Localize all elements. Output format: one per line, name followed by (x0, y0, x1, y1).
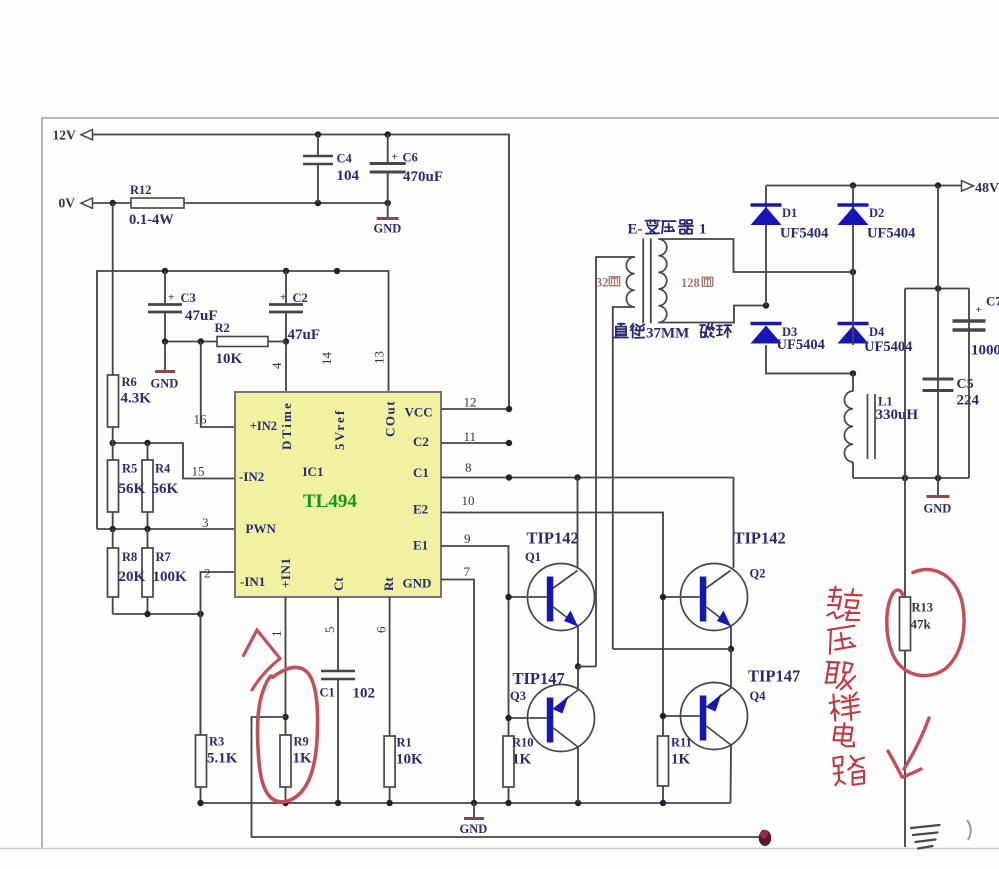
resistor R1 (384, 736, 395, 787)
wire end blob (759, 830, 772, 846)
label core note (直径37MM磁环) (614, 324, 628, 338)
junction R1 bottom (386, 800, 392, 806)
svg-text:-IN1: -IN1 (240, 574, 265, 589)
ground below C6 (387, 203, 389, 217)
diode D2 (838, 203, 869, 207)
junction C4/12V (315, 131, 321, 137)
svg-text:GND: GND (924, 502, 952, 516)
junction D2 anode (850, 269, 856, 275)
svg-text:11: 11 (464, 429, 477, 444)
svg-text:Q3: Q3 (510, 689, 526, 703)
red arrow up near R9 (244, 630, 281, 690)
svg-text:C1: C1 (320, 686, 335, 700)
wire secondary top lead (658, 239, 853, 272)
junction pin14 top (334, 268, 340, 274)
svg-text:2: 2 (204, 566, 211, 581)
wire C3 to R2 node (165, 341, 217, 343)
svg-text:7: 7 (464, 564, 471, 579)
diode D3 (751, 322, 782, 326)
transformer T1 core (642, 239, 644, 324)
junction C3 bottom (162, 338, 168, 344)
junction C4/0V (315, 200, 321, 206)
svg-text:4.3K: 4.3K (121, 391, 152, 407)
svg-text:330uH: 330uH (876, 407, 919, 423)
resistor R2 (268, 341, 286, 343)
svg-text:TIP142: TIP142 (527, 529, 579, 548)
junction Q3 base (505, 715, 511, 721)
wire R8/R7 bottoms (113, 613, 201, 615)
transformer T1 secondary winding (658, 239, 666, 323)
svg-text:56K: 56K (119, 481, 146, 497)
inductor L1 (852, 373, 854, 391)
svg-text:COut: COut (383, 400, 398, 437)
svg-text:32: 32 (596, 276, 609, 290)
svg-text:C5: C5 (957, 377, 974, 392)
ground symbol right (937, 478, 939, 495)
wire Q4 collector down (730, 745, 733, 803)
svg-text:6: 6 (374, 626, 389, 633)
wire Q2 collector (733, 478, 735, 569)
svg-text:104: 104 (337, 168, 360, 184)
resistor R5 (112, 443, 114, 460)
junction D2 cathode rail (850, 182, 856, 188)
resistor R8 (112, 529, 114, 548)
svg-text:1: 1 (699, 222, 707, 238)
svg-text:C4: C4 (337, 152, 353, 166)
svg-text:C7: C7 (986, 294, 999, 309)
wire pin7 GND (441, 580, 474, 804)
junction C3 top (162, 268, 168, 274)
svg-text:56K: 56K (152, 481, 179, 497)
red note char 3 (取) (824, 660, 857, 691)
svg-text:9: 9 (464, 531, 471, 546)
resistor R4 (147, 443, 149, 460)
svg-text:13: 13 (372, 351, 387, 364)
wire C2 node to pin4 (285, 342, 287, 393)
svg-text:C3: C3 (181, 291, 196, 305)
svg-text:16: 16 (194, 412, 208, 427)
resistor R12 (131, 198, 184, 208)
wire pin12 VCC (441, 408, 509, 410)
red note char 2 (压) (827, 626, 857, 654)
red note char 1 (稳) (826, 586, 863, 622)
red arrow down near R13 (888, 718, 929, 777)
svg-text:+IN2: +IN2 (250, 419, 277, 433)
svg-text:UF5404: UF5404 (867, 226, 915, 242)
junction R4 top (144, 440, 150, 446)
capacitor C6 (387, 135, 389, 163)
wire pin16 +IN2 (201, 342, 235, 428)
svg-text:15: 15 (192, 464, 205, 479)
junction pin16 tap (198, 338, 204, 344)
junction C6/12V (385, 131, 391, 137)
svg-text:D2: D2 (869, 206, 884, 220)
svg-text:+: + (976, 304, 982, 316)
svg-text:12: 12 (464, 395, 477, 410)
transformer T1 primary winding (626, 257, 634, 307)
junction R9 top (282, 714, 288, 720)
wire output bottom line (853, 477, 969, 479)
svg-text:Ct: Ct (331, 577, 346, 591)
red circle around R13 (887, 570, 964, 676)
svg-text:14: 14 (319, 352, 334, 366)
wire Q3 base (509, 717, 529, 719)
junction output cap rail (935, 182, 941, 188)
wire pin5 Ct down (337, 597, 339, 670)
wire R6 bottom node (113, 443, 235, 479)
op-amp U1 TL494 body (235, 392, 441, 597)
svg-text:1K: 1K (671, 752, 691, 768)
capacitor C1 (321, 670, 355, 673)
wire Q3 emitter up (577, 667, 579, 691)
junction pin12/12V (506, 406, 512, 412)
svg-text:E2: E2 (413, 502, 428, 517)
svg-text:0.1-4W: 0.1-4W (129, 212, 174, 228)
junction pin11/12V (506, 440, 512, 446)
svg-text:+IN1: +IN1 (278, 558, 293, 588)
resistor R7 (147, 529, 149, 548)
wire output top line (905, 288, 969, 290)
junction R3 bottom (197, 800, 203, 806)
capacitor C5 (937, 289, 939, 479)
svg-text:C6: C6 (403, 151, 418, 165)
junction Q1 collector tap (574, 474, 580, 480)
svg-text:R4: R4 (155, 462, 171, 476)
wire 48V rail (766, 185, 961, 187)
svg-text:UF5404: UF5404 (777, 337, 825, 353)
svg-text:R7: R7 (156, 550, 171, 564)
hand-drawn ground scribble (911, 825, 940, 849)
junction C5 bottom (935, 475, 941, 481)
svg-text:1K: 1K (512, 752, 532, 768)
inductor L1 core (867, 394, 869, 459)
wire R13 down (904, 651, 906, 848)
junction Q4 base (660, 713, 666, 719)
wire pin10 E2 (441, 513, 663, 804)
wire primary top to emitters (578, 666, 596, 668)
resistor R6 (108, 375, 119, 427)
svg-text:R5: R5 (122, 462, 137, 476)
capacitor C3 (164, 271, 166, 303)
svg-text:R11: R11 (671, 736, 692, 750)
svg-text:1000uF: 1000uF (971, 343, 999, 359)
svg-text:4: 4 (269, 362, 284, 369)
svg-text:GND: GND (460, 822, 488, 836)
svg-text:47uF: 47uF (185, 308, 218, 324)
wire D2 branch (852, 186, 854, 273)
svg-text:224: 224 (957, 393, 980, 409)
photo mark parenthesis (967, 820, 971, 840)
svg-text:5: 5 (322, 627, 337, 634)
svg-text:48V: 48V (975, 181, 999, 196)
resistor R9 (280, 735, 291, 787)
svg-text:+: + (168, 292, 174, 304)
wire pin11 (441, 442, 509, 444)
svg-text:VCC: VCC (405, 405, 433, 420)
svg-text:PWN: PWN (246, 521, 277, 536)
svg-text:470uF: 470uF (403, 169, 443, 185)
wire primary bottom lead (613, 307, 635, 649)
junction C5 top (935, 285, 941, 291)
wire R13 branch (904, 478, 906, 597)
junction C2 top (283, 268, 289, 274)
resistor R13 (900, 597, 911, 651)
svg-text:D4: D4 (869, 325, 885, 339)
wire D3 anode (766, 345, 853, 373)
junction R4 bottom (144, 526, 150, 532)
svg-text:R1: R1 (397, 736, 412, 750)
wire pin2 -IN1 (201, 572, 236, 735)
wire R9 top to feedback line (252, 717, 766, 837)
junction Q2 base (660, 594, 666, 600)
svg-text:R10: R10 (512, 736, 534, 750)
svg-text:C2: C2 (413, 434, 429, 449)
wire 0V line (93, 202, 388, 204)
capacitor C7 (968, 289, 970, 479)
12V input arrow (81, 130, 93, 140)
svg-text:E-: E- (628, 222, 643, 238)
svg-text:47k: 47k (911, 617, 932, 632)
svg-text:GND: GND (151, 377, 179, 391)
diode D1 (751, 203, 782, 207)
svg-text:R13: R13 (912, 601, 934, 615)
svg-text:10: 10 (462, 493, 475, 508)
wire Q2 emitter down (730, 626, 732, 649)
red note char 6 (路) (833, 755, 866, 786)
wire D4 branch (852, 272, 854, 345)
svg-text:R3: R3 (209, 735, 224, 749)
svg-text:3: 3 (202, 515, 209, 530)
svg-text:R9: R9 (294, 735, 309, 749)
svg-text:8: 8 (465, 460, 472, 475)
svg-text:Q4: Q4 (750, 689, 767, 703)
junction pin7 bus (471, 800, 477, 806)
svg-text:R6: R6 (122, 375, 137, 389)
svg-text:5.1K: 5.1K (207, 751, 238, 767)
red note char 4 (样) (829, 692, 860, 721)
junction D1 anode / D3 cathode (763, 302, 769, 308)
svg-text:+: + (280, 292, 286, 304)
transistor Q2 (681, 564, 748, 631)
junction Q2/Q4 emitters (728, 646, 734, 652)
svg-text:TIP147: TIP147 (748, 667, 800, 686)
svg-text:128: 128 (681, 276, 700, 290)
junction R13 line bottom (902, 475, 908, 481)
wire Q2 base (663, 596, 681, 598)
svg-text:IC1: IC1 (303, 464, 324, 479)
junction R7 bottom (144, 611, 150, 617)
svg-text:0V: 0V (59, 196, 76, 211)
svg-text:TIP147: TIP147 (513, 669, 565, 688)
junction Q1 base (505, 594, 511, 600)
svg-text:10K: 10K (396, 752, 423, 768)
svg-text:GND: GND (403, 576, 432, 591)
svg-text:C2: C2 (293, 291, 308, 305)
node 48V output arrow (962, 181, 974, 191)
transistor Q1 (528, 564, 595, 631)
ground below C3 (164, 342, 166, 371)
svg-text:D1: D1 (782, 206, 797, 220)
svg-text:Q1: Q1 (525, 550, 541, 564)
svg-text:UF5404: UF5404 (780, 226, 828, 242)
wire C7 branch (904, 289, 906, 479)
svg-text:1K: 1K (293, 751, 313, 767)
svg-text:R2: R2 (215, 321, 230, 335)
svg-text:47uF: 47uF (288, 327, 321, 343)
svg-text:R8: R8 (122, 550, 137, 564)
junction R9 bottom (282, 800, 288, 806)
wire Q1 collector (577, 478, 579, 569)
svg-text:12V: 12V (53, 128, 77, 143)
ground symbol bottom (473, 803, 475, 817)
svg-text:37MM: 37MM (646, 326, 689, 342)
svg-text:DTime: DTime (279, 401, 294, 450)
wire ground bus (201, 802, 731, 804)
svg-text:TIP142: TIP142 (734, 529, 786, 548)
junction R5 bottom (110, 526, 116, 532)
junction R2/C2/pin4 (283, 338, 289, 344)
capacitor C2 (285, 271, 287, 303)
wire 48V down to filter (937, 186, 939, 289)
wire D1 branch (765, 186, 767, 306)
wire primary top lead (596, 257, 635, 667)
wire pin3 PWN line (97, 528, 235, 530)
svg-text:102: 102 (353, 686, 376, 702)
junction C1 bottom (335, 800, 341, 806)
svg-text:-IN2: -IN2 (239, 469, 264, 484)
wire Q3 collector down (577, 747, 579, 803)
svg-text:R12: R12 (130, 183, 152, 197)
svg-text:10K: 10K (216, 351, 243, 367)
svg-text:GND: GND (374, 222, 402, 236)
junction R11 bottom (660, 800, 666, 806)
resistor R10 (503, 736, 514, 787)
svg-text:5Vref: 5Vref (332, 408, 347, 450)
wire pin9 E1 (441, 546, 509, 803)
junction Q1/Q3 emitters (575, 663, 581, 669)
red note char 5 (电) (833, 722, 856, 747)
svg-text:C1: C1 (413, 465, 429, 480)
wire pin1 +IN1 down (285, 597, 287, 735)
svg-text:Rt: Rt (381, 577, 396, 591)
red circle around R9 (258, 667, 318, 802)
transistor Q4 (681, 683, 748, 750)
svg-text:100K: 100K (153, 569, 188, 585)
capacitor C4 (317, 135, 319, 156)
svg-text:TL494: TL494 (303, 491, 357, 512)
resistor R11 (658, 736, 669, 786)
svg-text:20K: 20K (119, 569, 146, 585)
wire 12V rail (93, 135, 510, 410)
svg-text:E1: E1 (413, 538, 428, 553)
wire Q4 base (663, 715, 681, 717)
svg-text:+: + (392, 151, 398, 163)
0V input arrow (81, 198, 93, 208)
junction Q3 collector bus (575, 800, 581, 806)
wire 5Vref top line (97, 271, 389, 529)
wire Q1 emitter down (577, 626, 579, 667)
wire secondary bottom lead (658, 306, 766, 323)
svg-text:Q2: Q2 (750, 567, 766, 581)
diode D4 (838, 322, 869, 326)
wire pin6 Rt down (389, 597, 391, 736)
wire 0V to R6 (112, 203, 114, 375)
junction C6/0V (385, 200, 391, 206)
junction L1 top (850, 370, 856, 376)
wire primary bottom to emitters (613, 648, 731, 650)
junction pin8/12V (506, 474, 512, 480)
wire pin8 C1 to collectors (441, 477, 734, 479)
junction R5 top (110, 440, 116, 446)
junction R10 bottom (505, 800, 511, 806)
svg-text:1: 1 (269, 631, 284, 638)
wire Q1 base (509, 596, 529, 598)
junction pin2 branch (197, 611, 203, 617)
transistor Q3 (528, 685, 595, 752)
junction 0V/R6 branch (110, 200, 116, 206)
wire Q4 emitter up (730, 649, 732, 688)
resistor R3 (200, 614, 202, 735)
